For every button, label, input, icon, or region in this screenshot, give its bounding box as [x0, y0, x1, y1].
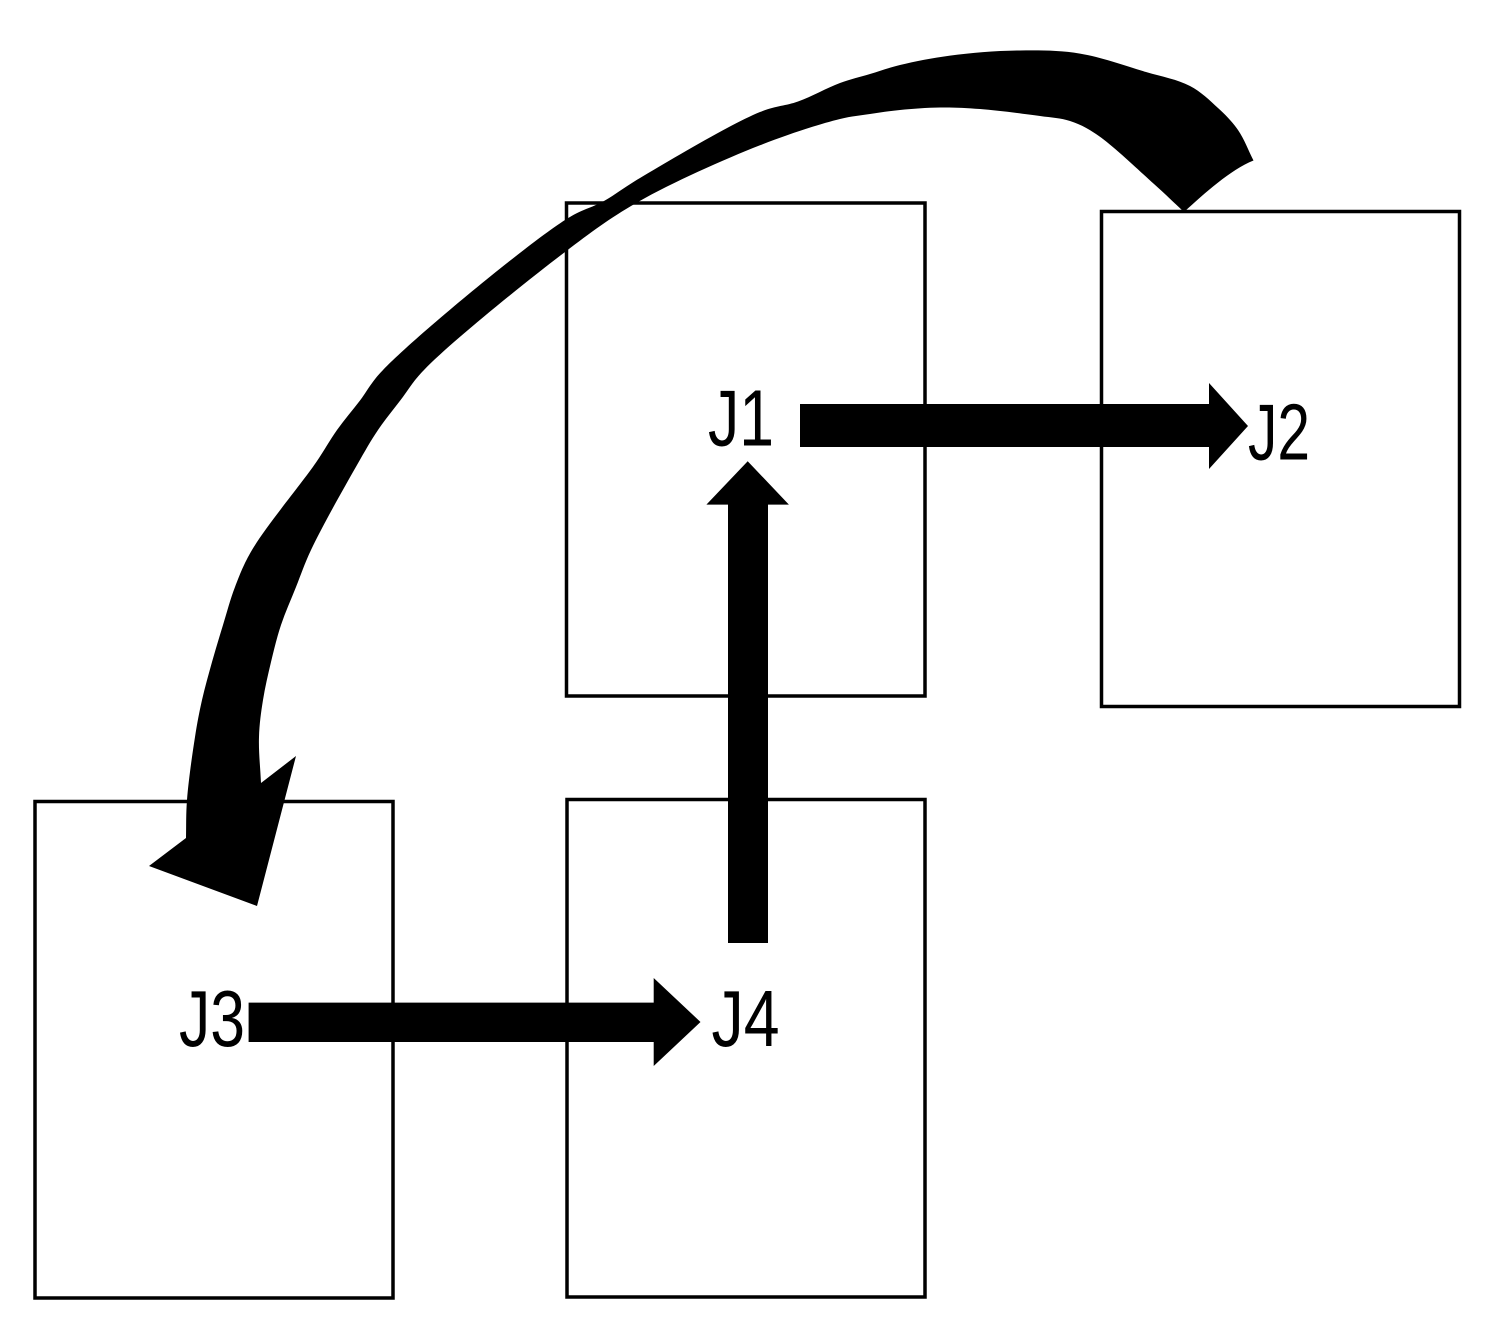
svg-text:J2: J2	[1248, 388, 1310, 477]
svg-text:J4: J4	[712, 974, 780, 1063]
svg-text:J3: J3	[179, 974, 245, 1063]
svg-text:J1: J1	[708, 374, 774, 463]
